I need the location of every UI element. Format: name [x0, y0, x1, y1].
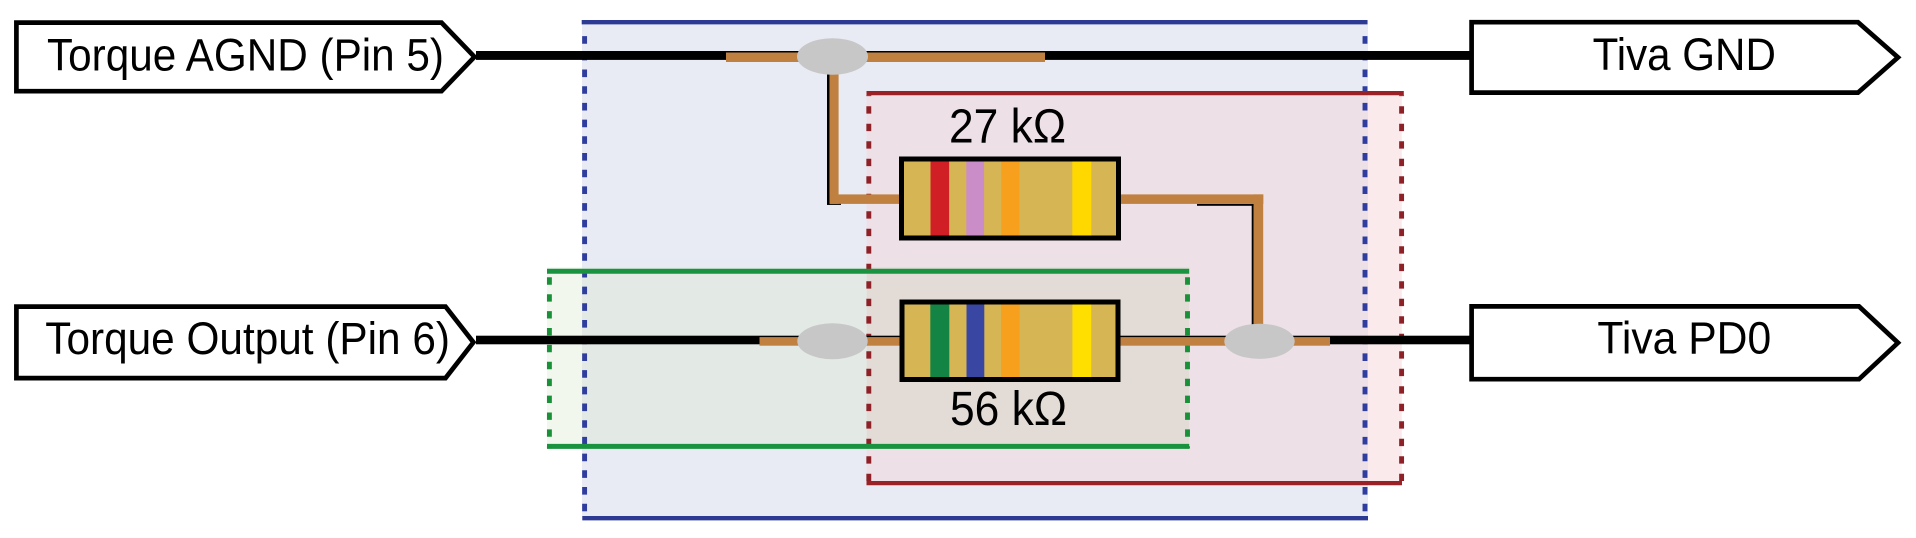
region red net fill over blue: [867, 93, 1369, 483]
red box bottom border: [867, 481, 1403, 485]
node Tiva GND flag: [1472, 22, 1898, 92]
node Torque AGND (Pin 5) flag: [16, 23, 474, 92]
green box bottom border: [547, 444, 1189, 449]
green box left dashed border: [547, 272, 552, 448]
wire orange vertical from top junction: [830, 56, 839, 204]
resistor R1 body (27 k): [902, 159, 1119, 238]
blue box left dashed border: [582, 27, 587, 516]
resistor R1 band orange: [1001, 162, 1019, 236]
svg-text:27 kΩ: 27 kΩ: [949, 101, 1066, 154]
junction dot top (AGND net): [797, 38, 868, 74]
region blue net fill: [582, 20, 1368, 520]
wire black underlayer of R1 right lead: [1197, 204, 1254, 206]
resistor R2 band orange: [1001, 305, 1020, 378]
blue box right dashed border: [1363, 27, 1368, 516]
region green net fill over blue+red: [867, 267, 1189, 449]
blue box top border: [582, 20, 1368, 24]
region green net fill over blue: [582, 267, 867, 449]
svg-text:Torque Output (Pin 6): Torque Output (Pin 6): [45, 313, 450, 364]
wire black underlayer stub at elbow: [827, 203, 841, 205]
wire orange elbow into resistor R1 left lead: [830, 194, 902, 204]
resistor R2 band blue: [967, 305, 985, 378]
green box right dashed border: [1185, 272, 1190, 448]
wire black: Torque AGND to Tiva GND: [476, 51, 1470, 60]
resistor R2 band green: [930, 305, 949, 378]
wire orange overlay on AGND net: [726, 53, 1045, 63]
resistor R1 band red: [931, 162, 950, 236]
svg-text:Tiva PD0: Tiva PD0: [1597, 313, 1771, 364]
wire orange R1 right lead vertical down to PD0 junction: [1254, 194, 1264, 341]
region red net fill over white: [1368, 93, 1402, 483]
svg-text:Torque AGND (Pin 5): Torque AGND (Pin 5): [47, 29, 444, 80]
wire black underlayer of junction drop: [827, 56, 830, 205]
red box top border: [867, 91, 1404, 95]
svg-text:Tiva GND: Tiva GND: [1593, 29, 1776, 80]
red box right dashed border: [1399, 95, 1404, 481]
wire orange overlay from Torque Output into R2: [760, 337, 903, 346]
wire black underlayer of R1 right vertical: [1252, 204, 1254, 330]
svg-text:56 kΩ: 56 kΩ: [950, 383, 1067, 436]
junction dot bottom left (Torque Output net): [797, 323, 867, 359]
node Torque Output (Pin 6) flag: [16, 307, 473, 379]
wire orange R1 right lead horizontal: [1119, 194, 1264, 204]
wire orange R2 right lead: [1118, 337, 1330, 346]
resistor R1 band gold-yellow: [1072, 162, 1091, 236]
blue box bottom border: [582, 516, 1368, 520]
node Tiva PD0 flag: [1472, 306, 1898, 379]
region green net fill over white: [547, 267, 582, 449]
resistor R2 band yellow: [1072, 305, 1091, 378]
resistor R2 body (56 k): [902, 302, 1118, 380]
green box top border: [547, 269, 1189, 274]
resistor R1 band violet: [966, 162, 984, 236]
red box left dashed border: [866, 95, 871, 481]
junction dot bottom right (Tiva PD0 node): [1224, 324, 1294, 359]
wire black: Torque Output to Tiva PD0: [476, 336, 1470, 345]
